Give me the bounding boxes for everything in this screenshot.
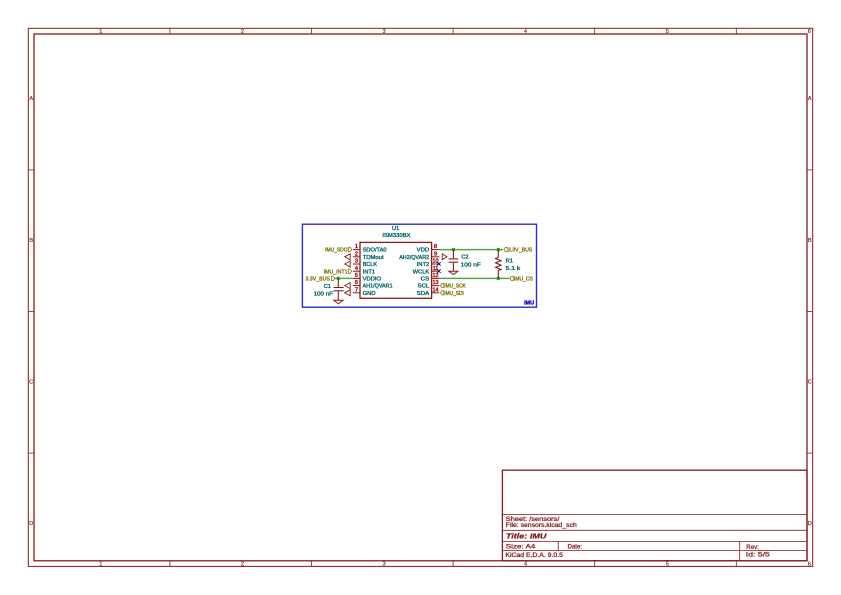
pin 13 SCL (418, 280, 440, 290)
svg-text:VDDIO: VDDIO (363, 277, 382, 283)
svg-text:C: C (29, 379, 33, 385)
svg-text:Id: 5/5: Id: 5/5 (746, 552, 771, 559)
blue notes text IMU (524, 301, 534, 307)
no-connect pin 10 (437, 262, 441, 266)
svg-text:IMU_CS: IMU_CS (514, 277, 533, 283)
svg-text:B: B (808, 238, 812, 244)
pin 7 GND (353, 287, 376, 297)
svg-text:11: 11 (433, 266, 439, 272)
svg-text:IMU_SCK: IMU_SCK (444, 284, 466, 290)
svg-text:12: 12 (432, 273, 438, 279)
U1 value text ISM330BX (382, 233, 410, 239)
svg-text:GND: GND (363, 291, 376, 297)
svg-text:AH2/QVAR2: AH2/QVAR2 (399, 255, 429, 261)
svg-text:A: A (808, 96, 812, 102)
svg-text:BCLK: BCLK (363, 262, 378, 268)
svg-text:1: 1 (99, 562, 102, 568)
svg-text:A: A (29, 96, 33, 102)
svg-text:TDMout: TDMout (363, 255, 384, 261)
ground symbol C2 (449, 271, 458, 274)
junction R1 top (497, 248, 501, 252)
title block texts (505, 516, 770, 559)
svg-text:5: 5 (355, 273, 358, 279)
pin 5 VDDIO (353, 273, 382, 283)
svg-text:2: 2 (241, 562, 244, 568)
junction C2 tap (452, 248, 456, 252)
svg-text:WCLK: WCLK (413, 269, 430, 275)
svg-text:R1: R1 (506, 258, 513, 264)
pin 9 AH2/QVAR2 (399, 251, 439, 261)
R1 reference text (506, 258, 513, 264)
svg-text:IMU_SDO: IMU_SDO (325, 248, 348, 254)
blue notes text box (302, 224, 536, 307)
title block row lines (502, 515, 807, 561)
svg-text:3: 3 (355, 259, 358, 265)
frame row labels right (808, 96, 812, 527)
svg-text:C1: C1 (324, 284, 331, 290)
pin 1 SDO/TA0 (353, 244, 387, 254)
C1 value text (314, 292, 334, 298)
svg-text:B: B (29, 238, 33, 244)
pin 12 CS (421, 273, 440, 283)
wire CS net (439, 277, 509, 279)
hierarchical label 3.3V_BUS right (504, 247, 533, 253)
svg-text:D: D (808, 521, 812, 527)
svg-text:13: 13 (432, 280, 438, 286)
hierarchical label IMU_SDO (325, 247, 352, 253)
svg-text:VDD: VDD (417, 248, 430, 254)
pin 9 output arrow (442, 254, 447, 260)
frame column labels bottom (99, 562, 811, 568)
hierarchical label IMU_CS (510, 276, 533, 282)
C1 reference text (324, 284, 331, 290)
pin 10 INT2 (417, 259, 440, 269)
svg-text:4: 4 (524, 562, 527, 568)
svg-text:100 nF: 100 nF (461, 262, 482, 268)
svg-text:INT1: INT1 (363, 269, 376, 275)
svg-text:6: 6 (355, 280, 358, 286)
title block outline (502, 470, 807, 561)
svg-text:IMU: IMU (524, 301, 534, 307)
hierarchical label IMU_INT1 (324, 269, 352, 275)
pin 2 input arrow (345, 254, 351, 260)
svg-text:8: 8 (434, 244, 437, 250)
svg-text:4: 4 (524, 29, 527, 35)
svg-text:14: 14 (432, 287, 438, 293)
svg-text:Size: A4: Size: A4 (506, 543, 536, 550)
pin 8 VDD (417, 244, 440, 254)
svg-text:6: 6 (808, 562, 811, 568)
svg-text:D: D (29, 521, 33, 527)
svg-text:2: 2 (241, 29, 244, 35)
svg-text:CS: CS (421, 277, 430, 283)
svg-text:SCL: SCL (418, 284, 430, 290)
frame column labels top (99, 29, 811, 35)
pin 6 AH1/QVAR1 (353, 280, 393, 290)
svg-text:3: 3 (382, 562, 385, 568)
svg-text:5: 5 (666, 29, 669, 35)
hierarchical label IMU_SCK (440, 283, 466, 289)
hierarchical label 3.3V_BUS left (305, 276, 335, 282)
U1 reference text (392, 226, 399, 232)
pin 4 INT1 (353, 266, 375, 276)
svg-text:3: 3 (382, 29, 385, 35)
svg-text:5: 5 (666, 562, 669, 568)
R1 value text (506, 266, 521, 272)
capacitor C1 (334, 278, 344, 300)
svg-text:Date:: Date: (568, 543, 583, 550)
svg-text:INT2: INT2 (417, 262, 430, 268)
svg-text:100 nF: 100 nF (314, 292, 334, 298)
junction C1 tap (337, 277, 341, 281)
svg-text:AH1/QVAR1: AH1/QVAR1 (363, 284, 393, 290)
pin 3 BCLK (353, 259, 377, 269)
svg-text:1: 1 (355, 244, 358, 250)
capacitor C2 (449, 250, 459, 272)
svg-text:IMU_SDI: IMU_SDI (444, 291, 464, 297)
pin 7 input arrow (345, 290, 351, 296)
wire VDD net (439, 249, 503, 251)
junction R1 bottom (497, 277, 501, 281)
svg-text:Rev:: Rev: (746, 544, 759, 551)
svg-text:KiCad E.D.A. 9.0.5: KiCad E.D.A. 9.0.5 (505, 552, 563, 559)
IC U1 ISM330BX body (360, 242, 432, 298)
svg-text:C: C (808, 379, 812, 385)
svg-text:3.3V_BUS: 3.3V_BUS (305, 277, 330, 283)
no-connect pin 11 (437, 269, 441, 273)
svg-text:3.3V_BUS: 3.3V_BUS (508, 248, 533, 254)
svg-text:IMU_INT1: IMU_INT1 (324, 269, 348, 275)
svg-text:C2: C2 (461, 254, 468, 260)
svg-text:6: 6 (808, 29, 811, 35)
svg-text:5.1 k: 5.1 k (506, 266, 521, 272)
pin 3 input arrow (345, 261, 351, 267)
pin 11 WCLK (413, 266, 440, 276)
pin 6 input arrow (345, 283, 351, 289)
svg-text:File: sensors.kicad_sch: File: sensors.kicad_sch (506, 522, 577, 529)
C2 reference text (461, 254, 468, 260)
svg-text:4: 4 (355, 266, 358, 272)
svg-text:Title: IMU: Title: IMU (506, 532, 547, 541)
svg-text:SDA: SDA (417, 291, 430, 297)
wire 3.3V_BUS to pin 5 (335, 277, 353, 279)
svg-text:9: 9 (434, 251, 437, 257)
svg-text:10: 10 (432, 259, 438, 265)
pin 2 TDMout (353, 251, 384, 261)
svg-text:ISM330BX: ISM330BX (382, 233, 410, 239)
C2 value text (461, 262, 482, 268)
resistor R1 (496, 250, 501, 279)
svg-text:7: 7 (355, 287, 358, 293)
svg-text:U1: U1 (392, 226, 399, 232)
frame row labels left (29, 96, 33, 527)
svg-text:SDO/TA0: SDO/TA0 (363, 248, 387, 254)
hierarchical label IMU_SDI (440, 291, 464, 297)
svg-text:2: 2 (355, 251, 358, 257)
ground symbol C1 (334, 300, 343, 304)
svg-text:1: 1 (99, 29, 102, 35)
pin 14 SDA (417, 287, 440, 297)
